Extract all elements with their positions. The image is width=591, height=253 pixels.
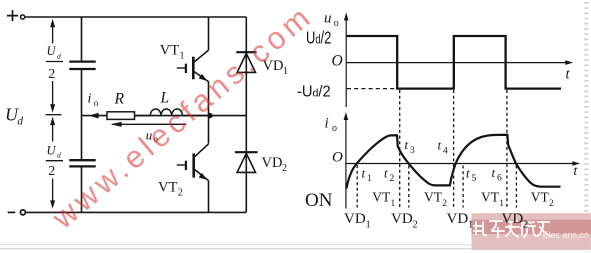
label t5: [466, 165, 477, 184]
svg-text:2: 2: [390, 174, 395, 184]
label Ud/2 fraction upper: [46, 44, 63, 82]
logo glyph 2: [490, 221, 504, 237]
svg-text:2: 2: [178, 188, 183, 199]
svg-text:o: o: [94, 99, 99, 109]
svg-text:O: O: [332, 149, 343, 165]
label Ud/2 fraction lower: [46, 143, 63, 179]
svg-text:5: 5: [472, 174, 477, 184]
dashed line t5: [462, 166, 464, 208]
svg-text:VT: VT: [481, 190, 500, 205]
wire bottom rail: [26, 211, 247, 213]
bottom input circle: [20, 210, 25, 215]
label -Ud/2 level: [297, 83, 331, 101]
svg-text:U: U: [47, 143, 57, 157]
diode VD1: [236, 52, 256, 72]
bottom rule line 1: [0, 244, 591, 246]
svg-text:R: R: [114, 90, 125, 107]
svg-text:t: t: [438, 138, 442, 153]
label VD1 interval 2: [447, 211, 474, 231]
svg-text:i: i: [325, 116, 329, 132]
label Ud/2 level: [306, 29, 331, 48]
dashed line t1: [356, 165, 358, 208]
svg-text:VT: VT: [158, 180, 177, 196]
svg-text:t: t: [566, 67, 571, 83]
wire capacitor leg middle: [81, 70, 83, 159]
svg-text:2: 2: [442, 199, 447, 209]
axis arrowheads: [344, 13, 349, 21]
label t2: [384, 165, 395, 184]
io chart y-axis: [345, 119, 347, 209]
capacitor C1: [69, 62, 95, 69]
watermark elecfans logo box: [472, 213, 591, 250]
svg-text:o: o: [334, 18, 339, 29]
label io axis: [325, 116, 338, 135]
wire capacitor leg lower: [81, 167, 83, 212]
svg-text:d: d: [57, 151, 61, 160]
svg-text:2: 2: [523, 219, 528, 230]
top input circle: [21, 15, 25, 19]
label io circuit: [88, 92, 99, 109]
label VD2 interval 1: [391, 211, 418, 231]
svg-text:1: 1: [366, 219, 371, 230]
wire L to junction: [182, 115, 208, 117]
label VT2 interval 2: [531, 190, 554, 209]
svg-text:u: u: [324, 11, 332, 27]
svg-text:VD: VD: [502, 211, 524, 227]
svg-text:t: t: [384, 165, 388, 180]
svg-text:VD: VD: [262, 155, 283, 171]
diode VD2: [235, 152, 258, 172]
logo glyph 3: [506, 221, 519, 237]
svg-text:1: 1: [283, 66, 288, 77]
minus terminal: [8, 211, 16, 213]
logo glyph 1: [474, 221, 550, 237]
wire transistor leg bottom: [208, 181, 210, 212]
label VD2 interval 2: [502, 211, 529, 231]
dashed line after t6: [515, 166, 517, 208]
label VD1: [263, 58, 289, 77]
svg-text:U: U: [47, 44, 57, 58]
svg-text:t: t: [492, 165, 496, 180]
wire mid load rail: [82, 115, 247, 117]
svg-text:t: t: [574, 163, 579, 178]
resistor R: [107, 112, 135, 120]
label VT1 interval 1: [372, 190, 395, 209]
svg-text:d: d: [17, 115, 23, 127]
transistor VT2: [177, 144, 209, 181]
dashed line t6: [506, 90, 508, 208]
label t1: [362, 165, 373, 184]
svg-text:-Ud/2: -Ud/2: [297, 83, 331, 101]
label t3: [405, 137, 416, 156]
logo glyph 4: [521, 222, 536, 237]
dashed line t3: [408, 166, 410, 208]
svg-text:1: 1: [499, 199, 504, 209]
label Ud: [5, 105, 23, 128]
wire top rail: [25, 16, 246, 18]
svg-text:Elec ans.co: Elec ans.co: [543, 230, 590, 240]
node load junction: [207, 113, 212, 118]
svg-text:6: 6: [497, 174, 502, 184]
label VD1 interval 1: [344, 211, 371, 231]
label uo circuit: [146, 127, 159, 144]
node mid tick: [46, 114, 62, 116]
wire transistor leg top: [208, 17, 210, 50]
svg-text:2: 2: [413, 219, 418, 230]
svg-text:d: d: [57, 51, 61, 60]
label t4: [438, 138, 449, 157]
waveform uo square wave: [346, 36, 561, 89]
label VT2: [158, 180, 183, 199]
arrow uo reference: [113, 123, 187, 125]
svg-text:2: 2: [549, 199, 554, 209]
label VT2 interval 1: [424, 190, 447, 209]
svg-text:t: t: [466, 165, 470, 180]
perforated right edge: [584, 2, 588, 252]
svg-text:O: O: [332, 53, 343, 70]
svg-text:VT: VT: [424, 190, 443, 205]
transistor VT1: [177, 50, 209, 82]
svg-text:VT: VT: [372, 190, 391, 205]
wire transistor leg middle: [208, 82, 210, 144]
wire R to L: [135, 115, 151, 117]
svg-text:VT: VT: [160, 43, 179, 59]
svg-text:VD: VD: [344, 211, 366, 227]
label VD2: [262, 155, 288, 174]
svg-text:L: L: [160, 89, 170, 106]
uo chart y-axis: [346, 19, 573, 209]
wire diode leg: [245, 17, 247, 212]
svg-text:2: 2: [282, 163, 287, 174]
svg-text:www.elecfans.com: www.elecfans.com: [45, 0, 316, 236]
svg-text:3: 3: [410, 146, 415, 156]
arrow io current: [89, 113, 99, 119]
dashed line t2: [399, 90, 401, 208]
wire capacitor leg upper: [81, 17, 83, 61]
svg-text:i: i: [88, 92, 92, 107]
logo glyph 5: [538, 222, 550, 236]
svg-text:t: t: [405, 137, 409, 152]
svg-text:ON: ON: [305, 190, 333, 211]
svg-text:1: 1: [391, 199, 396, 209]
svg-text:1: 1: [468, 219, 473, 230]
plus terminal: [7, 10, 18, 21]
svg-text:VT: VT: [531, 190, 550, 205]
svg-text:2: 2: [48, 67, 55, 82]
svg-text:o: o: [332, 123, 337, 134]
svg-text:t: t: [362, 165, 366, 180]
svg-text:4: 4: [443, 146, 448, 156]
dashed -Ud/2 level: [347, 88, 396, 90]
inductor L: [150, 109, 182, 116]
capacitor C2: [69, 160, 95, 166]
svg-text:VD: VD: [391, 211, 413, 227]
label t6: [492, 165, 503, 184]
label uo axis: [324, 11, 339, 30]
svg-text:1: 1: [180, 51, 185, 62]
svg-text:1: 1: [367, 174, 372, 184]
svg-text:2: 2: [48, 164, 55, 179]
label VT1 interval 2: [481, 190, 504, 209]
label VT1: [160, 43, 185, 62]
dimension arrow lower Ud/2: [52, 125, 54, 142]
dimension arrow upper Ud/2: [46, 19, 62, 209]
bottom rule line 2: [0, 248, 591, 250]
svg-text:VD: VD: [447, 211, 469, 227]
dashed line t4: [453, 90, 455, 208]
waveform io curve: [346, 135, 560, 189]
